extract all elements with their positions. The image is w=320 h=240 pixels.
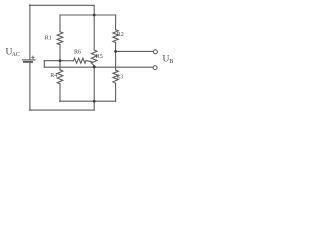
- svg-text:R4: R4: [50, 73, 57, 79]
- svg-text:AC: AC: [12, 52, 20, 58]
- svg-text:R2: R2: [117, 32, 124, 38]
- svg-text:R1: R1: [45, 36, 52, 42]
- svg-text:R3: R3: [116, 74, 123, 80]
- svg-text:R5: R5: [96, 54, 103, 60]
- svg-text:R6: R6: [74, 50, 81, 56]
- svg-text:B: B: [169, 59, 173, 65]
